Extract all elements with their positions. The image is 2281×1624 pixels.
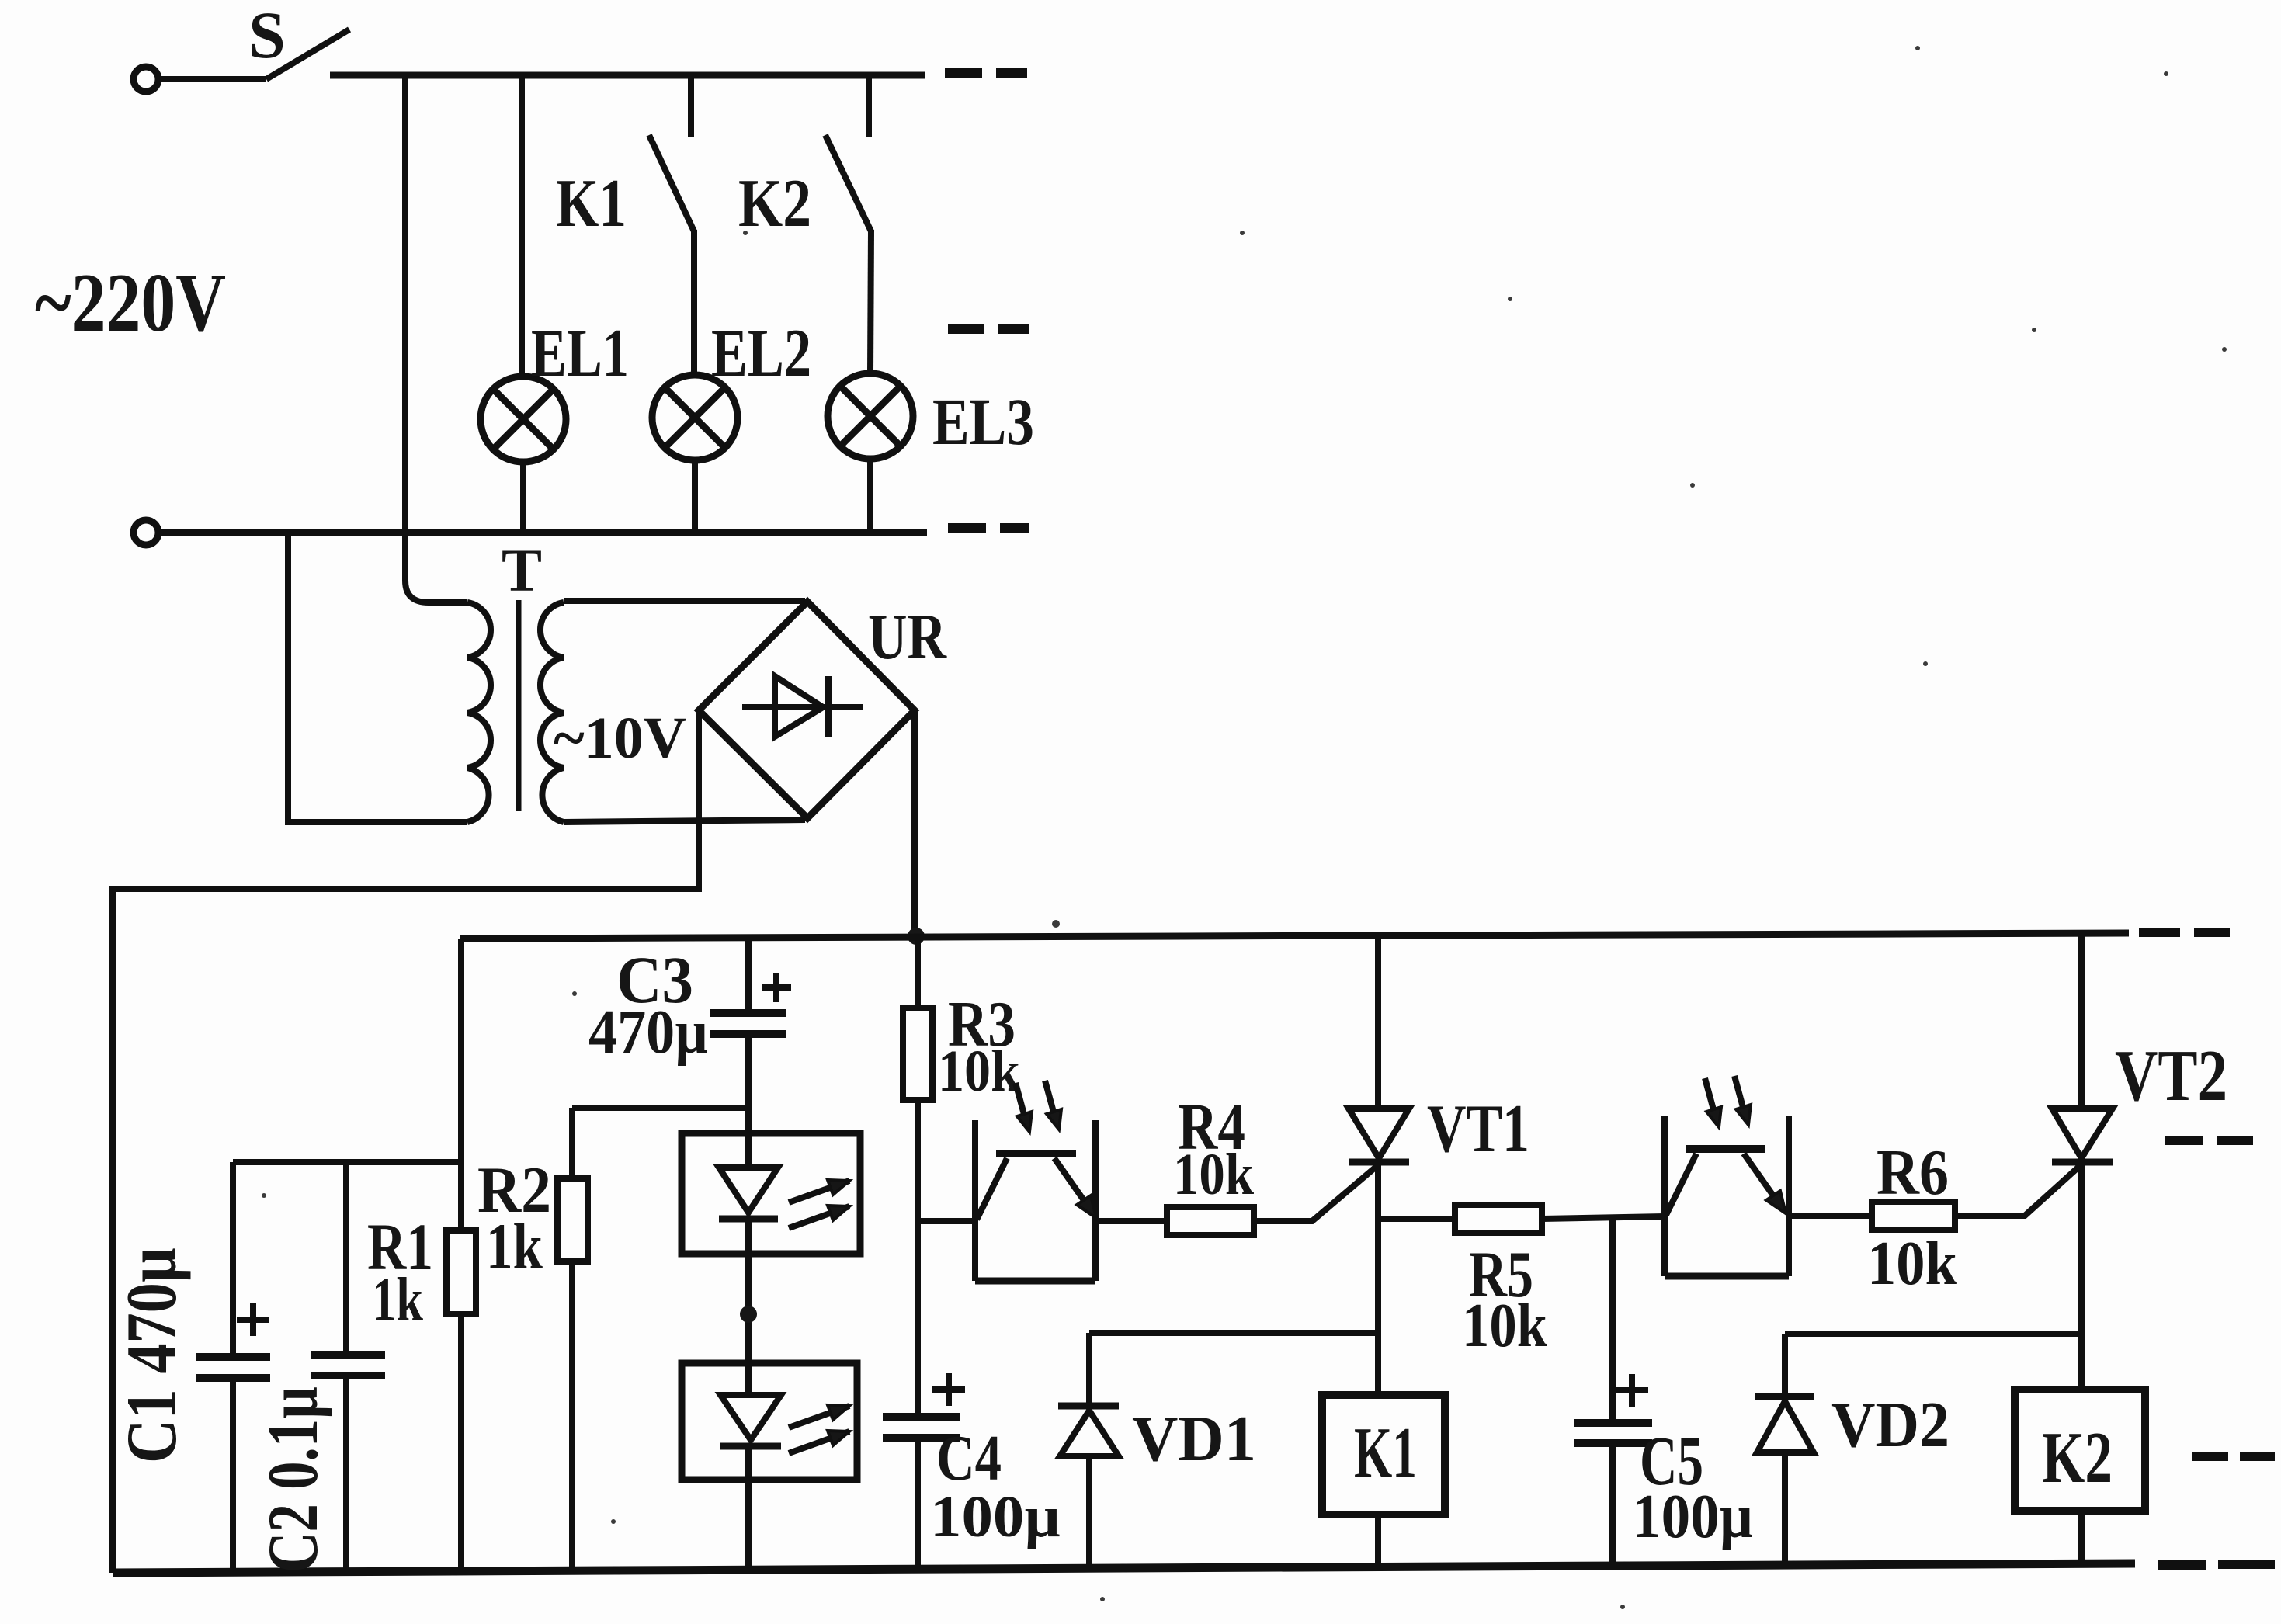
svg-text:VD1: VD1 — [1132, 1403, 1256, 1475]
wire secondary bottom to bridge — [564, 820, 805, 822]
wire VT1 to R5 — [1378, 1216, 1455, 1222]
bottom bus dashes — [2158, 1564, 2275, 1565]
phototransistor U2 — [1665, 1076, 1789, 1276]
wire LED column bottom — [745, 1446, 752, 1572]
svg-text:~220V: ~220V — [35, 257, 226, 349]
wire C1 C2 top — [233, 1159, 461, 1165]
wire EL3 branch — [870, 230, 871, 373]
wire EL2 branch — [691, 230, 697, 375]
svg-text:10k: 10k — [1462, 1292, 1547, 1360]
diode VD1 — [1058, 1333, 1119, 1572]
wire VD2 to VT2 cathode — [1785, 1331, 2081, 1337]
wire terminal to switch S — [159, 76, 266, 82]
capacitor C5 — [1574, 1218, 1652, 1566]
wire K1 to bus — [1375, 1515, 1381, 1569]
svg-text:K2: K2 — [738, 166, 811, 241]
thyristor VT2 — [2052, 933, 2113, 1390]
lamp EL1 — [481, 377, 566, 462]
optocoupler U1 LED box — [682, 1133, 860, 1254]
wire R4 to VT1 gate — [1254, 1164, 1379, 1221]
svg-text:C1 470µ: C1 470µ — [112, 1247, 191, 1463]
wire R1 column — [458, 939, 464, 1230]
wire EL1 bottom — [520, 462, 526, 533]
svg-text:~10V: ~10V — [554, 706, 686, 771]
wire R3 to C4 — [915, 1100, 921, 1414]
bridge rectifier UR — [699, 602, 915, 818]
wire R6 to VT2 gate — [1955, 1164, 2081, 1216]
wire phototransistor U2 to R6 — [1789, 1213, 1872, 1219]
svg-text:100µ: 100µ — [1632, 1483, 1753, 1551]
wire node to phototransistor U1 — [918, 1218, 975, 1224]
svg-text:K1: K1 — [556, 166, 627, 241]
transformer T core — [516, 600, 522, 811]
phototransistor U1 — [975, 1081, 1096, 1281]
lamp EL3 — [828, 373, 913, 459]
wire C3 column down — [745, 1037, 752, 1168]
svg-text:C2 0.1µ: C2 0.1µ — [253, 1386, 332, 1573]
rail dashes right — [2139, 928, 2230, 937]
switch K2 blade — [825, 135, 871, 231]
wire bridge right vertex down to rail — [911, 710, 918, 936]
svg-text:10k: 10k — [1867, 1230, 1957, 1298]
svg-text:EL1: EL1 — [531, 316, 629, 391]
resistor R5 — [1455, 1205, 1542, 1233]
switch S blade — [266, 29, 349, 79]
svg-text:10k: 10k — [938, 1039, 1021, 1104]
wire EL3 bottom — [867, 459, 873, 533]
terminal lower left — [134, 520, 158, 545]
svg-text:K1: K1 — [1354, 1413, 1417, 1494]
svg-text:VD2: VD2 — [1831, 1389, 1949, 1461]
positive supply rail — [460, 933, 2129, 939]
optocoupler U2 LED box — [682, 1363, 857, 1480]
resistor R1 — [446, 1230, 476, 1314]
wire phototransistor U1 to R4 — [1095, 1218, 1167, 1224]
transformer T secondary winding — [540, 602, 564, 822]
svg-text:R6: R6 — [1877, 1136, 1949, 1209]
relay K2 — [2015, 1390, 2145, 1511]
svg-text:VT2: VT2 — [2115, 1036, 2227, 1116]
resistor R4 — [1167, 1207, 1254, 1235]
wire R3 column top — [915, 936, 921, 1008]
lamp EL2 — [652, 375, 738, 460]
svg-text:1k: 1k — [372, 1266, 423, 1334]
lower AC bus dashes — [948, 523, 1029, 533]
svg-text:K2: K2 — [2042, 1418, 2113, 1498]
wire LED column middle — [745, 1219, 752, 1395]
LED D2 of optocoupler U2 — [720, 1395, 849, 1453]
svg-text:VT1: VT1 — [1427, 1091, 1529, 1167]
diode VD2 — [1755, 1334, 1814, 1565]
wire EL1 branch top — [519, 75, 525, 377]
wire K2 to bus — [2078, 1511, 2085, 1564]
bottom bus wire — [113, 1563, 2135, 1573]
svg-text:S: S — [248, 0, 286, 72]
svg-text:470µ: 470µ — [588, 998, 708, 1067]
wire secondary top to bridge — [564, 598, 805, 604]
resistor R3 — [903, 1008, 932, 1100]
node junction dot LED column — [740, 1306, 757, 1323]
terminal upper left — [134, 67, 158, 92]
resistor R2 — [557, 1178, 588, 1261]
switch K2 stub — [866, 75, 872, 137]
node junction dot bridge output — [908, 928, 925, 945]
wire primary bottom return — [288, 533, 467, 822]
wire R5 to phototransistor U2 — [1542, 1216, 1665, 1219]
dashes right of K2 — [2192, 1452, 2275, 1461]
switch K1 stub — [688, 75, 694, 137]
wire VD1 to VT1 cathode — [1089, 1330, 1378, 1336]
wire R2 column — [572, 1108, 748, 1571]
wire bridge left vertex down and to left border — [113, 710, 699, 1573]
top bus wire — [330, 72, 925, 79]
switch K1 blade — [649, 135, 694, 231]
svg-text:1k: 1k — [486, 1210, 543, 1283]
lower AC bus wire — [159, 529, 927, 536]
capacitor C2 — [311, 1162, 385, 1572]
svg-text:10k: 10k — [1173, 1142, 1255, 1207]
transformer T primary winding — [467, 602, 491, 822]
capacitor C1 — [196, 1162, 270, 1573]
thyristor VT1 — [1349, 936, 1409, 1395]
svg-text:EL3: EL3 — [932, 384, 1034, 459]
top bus dashes — [945, 68, 1027, 78]
capacitor C4 — [883, 1373, 965, 1570]
wire EL2 bottom — [692, 460, 698, 533]
LED D1 of optocoupler U1 — [719, 1168, 849, 1228]
wire primary feed from top bus — [405, 75, 467, 602]
svg-text:EL2: EL2 — [711, 316, 811, 391]
resistor R6 — [1872, 1202, 1955, 1230]
svg-text:T: T — [502, 536, 542, 604]
svg-text:UR: UR — [868, 601, 947, 673]
svg-text:100µ: 100µ — [930, 1484, 1061, 1549]
dashes right of VT2 — [2165, 1136, 2253, 1145]
capacitor C3 — [710, 936, 791, 1034]
middle continuation dashes — [948, 324, 1029, 334]
relay K1 — [1322, 1395, 1445, 1515]
